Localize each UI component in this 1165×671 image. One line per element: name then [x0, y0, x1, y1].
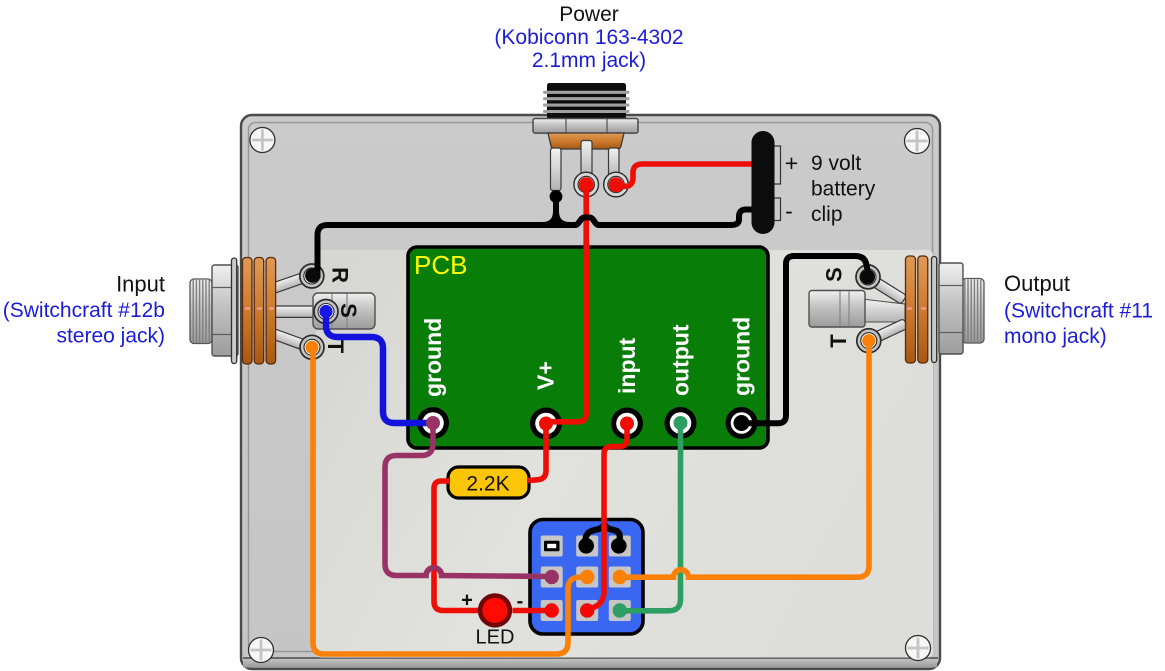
- node: PCB ground left dot: [426, 416, 440, 430]
- wire: resistor to LED anode (red): [434, 481, 478, 611]
- node: footswitch 3-1 dot: [545, 603, 559, 617]
- footswitch pad 1-1 (flat marker): [541, 536, 563, 557]
- input jack threaded barrel: [190, 279, 212, 344]
- svg-text:LED: LED: [476, 627, 515, 649]
- input jack terminal R: [300, 264, 324, 288]
- svg-text:ground: ground: [729, 317, 755, 396]
- svg-text:S: S: [336, 303, 361, 318]
- node: footswitch 2-3 dot: [613, 570, 627, 584]
- screw bottom-right: [906, 636, 931, 661]
- enclosure: [241, 115, 940, 669]
- input jack lug R (arm): [269, 269, 315, 293]
- output jack terminal S: [856, 265, 880, 289]
- node: footswitch 2-1 dot: [545, 570, 559, 584]
- power jack threaded barrel: [547, 83, 626, 120]
- input jack lug S (arm): [271, 306, 329, 317]
- power jack nut: [533, 119, 638, 134]
- screw top-left: [250, 128, 275, 153]
- node: footswitch 1-2 dot: [578, 538, 594, 554]
- svg-text:PCB: PCB: [414, 250, 467, 280]
- node: input S dot: [319, 305, 332, 318]
- svg-text:input: input: [614, 337, 640, 394]
- svg-text:battery: battery: [811, 178, 876, 201]
- svg-text:2.2K: 2.2K: [466, 473, 509, 496]
- node: footswitch 3-3 dot: [613, 603, 627, 617]
- battery clip terminal tab -: [773, 198, 781, 221]
- screw bottom-left: [249, 638, 274, 663]
- power jack lug (center): [581, 141, 592, 178]
- wire: PCB output to footswitch 3-3 (green): [622, 429, 681, 611]
- battery clip: [752, 131, 781, 234]
- wire: LED cathode to footswitch 3-1 (red): [513, 608, 552, 614]
- node: footswitch 3-2 dot: [580, 603, 594, 617]
- screw top-right: [905, 129, 930, 154]
- input jack (Switchcraft #12b stereo): [190, 258, 375, 365]
- footswitch pad 2-3: [609, 567, 631, 588]
- wire: PCB ground left to footswitch 2-1 (purple): [385, 429, 552, 577]
- svg-text:V+: V+: [533, 361, 559, 390]
- svg-text:ground: ground: [420, 318, 446, 397]
- node: output T dot: [862, 334, 875, 347]
- footswitch pad 2-2: [576, 567, 598, 588]
- power jack body (orange): [548, 133, 624, 149]
- svg-text:output: output: [668, 324, 694, 396]
- wire: input T to footswitch 2-2 (orange): [313, 349, 587, 654]
- PCB pad V+: [530, 408, 562, 440]
- enclosure inner lighter panel: [316, 250, 933, 658]
- PCB pad ground (left): [417, 407, 449, 439]
- input jack lug T (arm): [269, 328, 315, 353]
- node: output S dot: [860, 270, 875, 285]
- footswitch pad 3-2: [576, 600, 598, 621]
- output jack terminal T: [857, 329, 881, 353]
- svg-text:+: +: [785, 150, 798, 176]
- LED D1: [478, 593, 512, 627]
- svg-text:T: T: [826, 334, 851, 348]
- resistor R1 2.2K: [448, 467, 529, 498]
- svg-text:S: S: [822, 267, 847, 282]
- wire: input S to PCB ground (blue): [326, 313, 429, 423]
- wire: power center terminal to PCB V+ (red): [547, 186, 586, 422]
- input jack terminal T: [300, 335, 324, 359]
- output jack copper washers: [906, 256, 916, 363]
- input jack contact plate: [313, 293, 375, 329]
- PCB U1: [408, 247, 768, 448]
- battery clip body: [752, 131, 775, 234]
- svg-text:Input: Input: [116, 272, 165, 297]
- node: PCB V+ dot: [539, 417, 553, 431]
- svg-text:Output: Output: [1004, 271, 1070, 296]
- wire: PCB ground right to output S (black): [748, 256, 868, 423]
- output jack nut: [939, 263, 963, 354]
- PCB pad ground (right): [726, 407, 758, 439]
- power jack lug (ground, left): [551, 148, 562, 191]
- node: PCB ground right dot: [734, 415, 750, 431]
- footswitch pad 3-3: [609, 600, 631, 621]
- footswitch pad 1-2: [576, 536, 598, 557]
- output jack threaded barrel: [962, 279, 984, 344]
- input jack nut: [212, 265, 238, 356]
- svg-text:2.1mm jack): 2.1mm jack): [532, 49, 646, 72]
- svg-text:+: +: [461, 590, 473, 612]
- node: footswitch 2-2 dot: [580, 570, 594, 584]
- svg-text:R: R: [328, 267, 353, 283]
- footswitch S1: [530, 520, 643, 635]
- wire: power right terminal to battery + (red): [618, 164, 762, 186]
- footswitch pad 3-1: [541, 600, 563, 621]
- wire: input R to ground bus (black): [553, 196, 559, 215]
- output jack washer: [932, 257, 937, 363]
- node: input R dot: [305, 268, 320, 283]
- svg-text:-: -: [785, 198, 793, 224]
- svg-text:clip: clip: [811, 203, 843, 226]
- wire: PCB V+ to resistor (red): [528, 424, 546, 481]
- svg-text:(Kobiconn 163-4302: (Kobiconn 163-4302: [494, 26, 683, 49]
- node: footswitch 1-3 dot: [611, 538, 627, 554]
- node: PCB input dot: [620, 417, 634, 431]
- output jack body block: [862, 299, 905, 322]
- svg-text:mono jack): mono jack): [1004, 325, 1107, 348]
- svg-text:9 volt: 9 volt: [811, 152, 861, 175]
- output jack lug S (arm): [861, 271, 906, 305]
- input jack terminal S: [314, 300, 338, 324]
- input jack washer: [232, 258, 237, 364]
- input jack copper washers: [243, 258, 253, 365]
- output jack contact plate: [809, 291, 865, 328]
- svg-text:Power: Power: [559, 3, 619, 26]
- wire: PCB input to footswitch 3-2 (red): [588, 424, 628, 611]
- PCB pad input: [611, 408, 643, 440]
- power jack ring terminal center: [574, 172, 599, 197]
- power jack J1 (Kobiconn 2.1mm): [533, 83, 638, 197]
- svg-text:-: -: [517, 591, 524, 613]
- battery clip terminal tab +: [773, 146, 781, 184]
- node: power center terminal dot: [579, 177, 594, 192]
- output jack lug T (arm): [864, 319, 908, 347]
- footswitch pad 2-1: [541, 567, 563, 588]
- wire: footswitch 2-3 to output T (orange): [621, 343, 869, 577]
- svg-text:(Switchcraft #12b: (Switchcraft #12b: [3, 299, 165, 322]
- jumper wire (black) on footswitch: [585, 524, 620, 546]
- power jack ring terminal right: [604, 172, 629, 197]
- output jack (Switchcraft #11 mono): [809, 256, 984, 363]
- node: input T dot: [305, 341, 318, 354]
- footswitch pad 1-3: [609, 536, 631, 557]
- node: power right terminal dot: [609, 177, 624, 192]
- enclosure bottom bevel: [243, 657, 938, 659]
- svg-text:stereo jack): stereo jack): [56, 325, 165, 348]
- PCB pad output: [665, 407, 697, 439]
- enclosure inner frame line: [249, 123, 933, 652]
- power jack lug (right): [609, 148, 620, 177]
- node: PCB output dot: [674, 416, 688, 430]
- node: power ground junction (black dot): [550, 190, 563, 203]
- svg-text:T: T: [323, 340, 348, 354]
- svg-text:(Switchcraft #11: (Switchcraft #11: [1004, 300, 1153, 323]
